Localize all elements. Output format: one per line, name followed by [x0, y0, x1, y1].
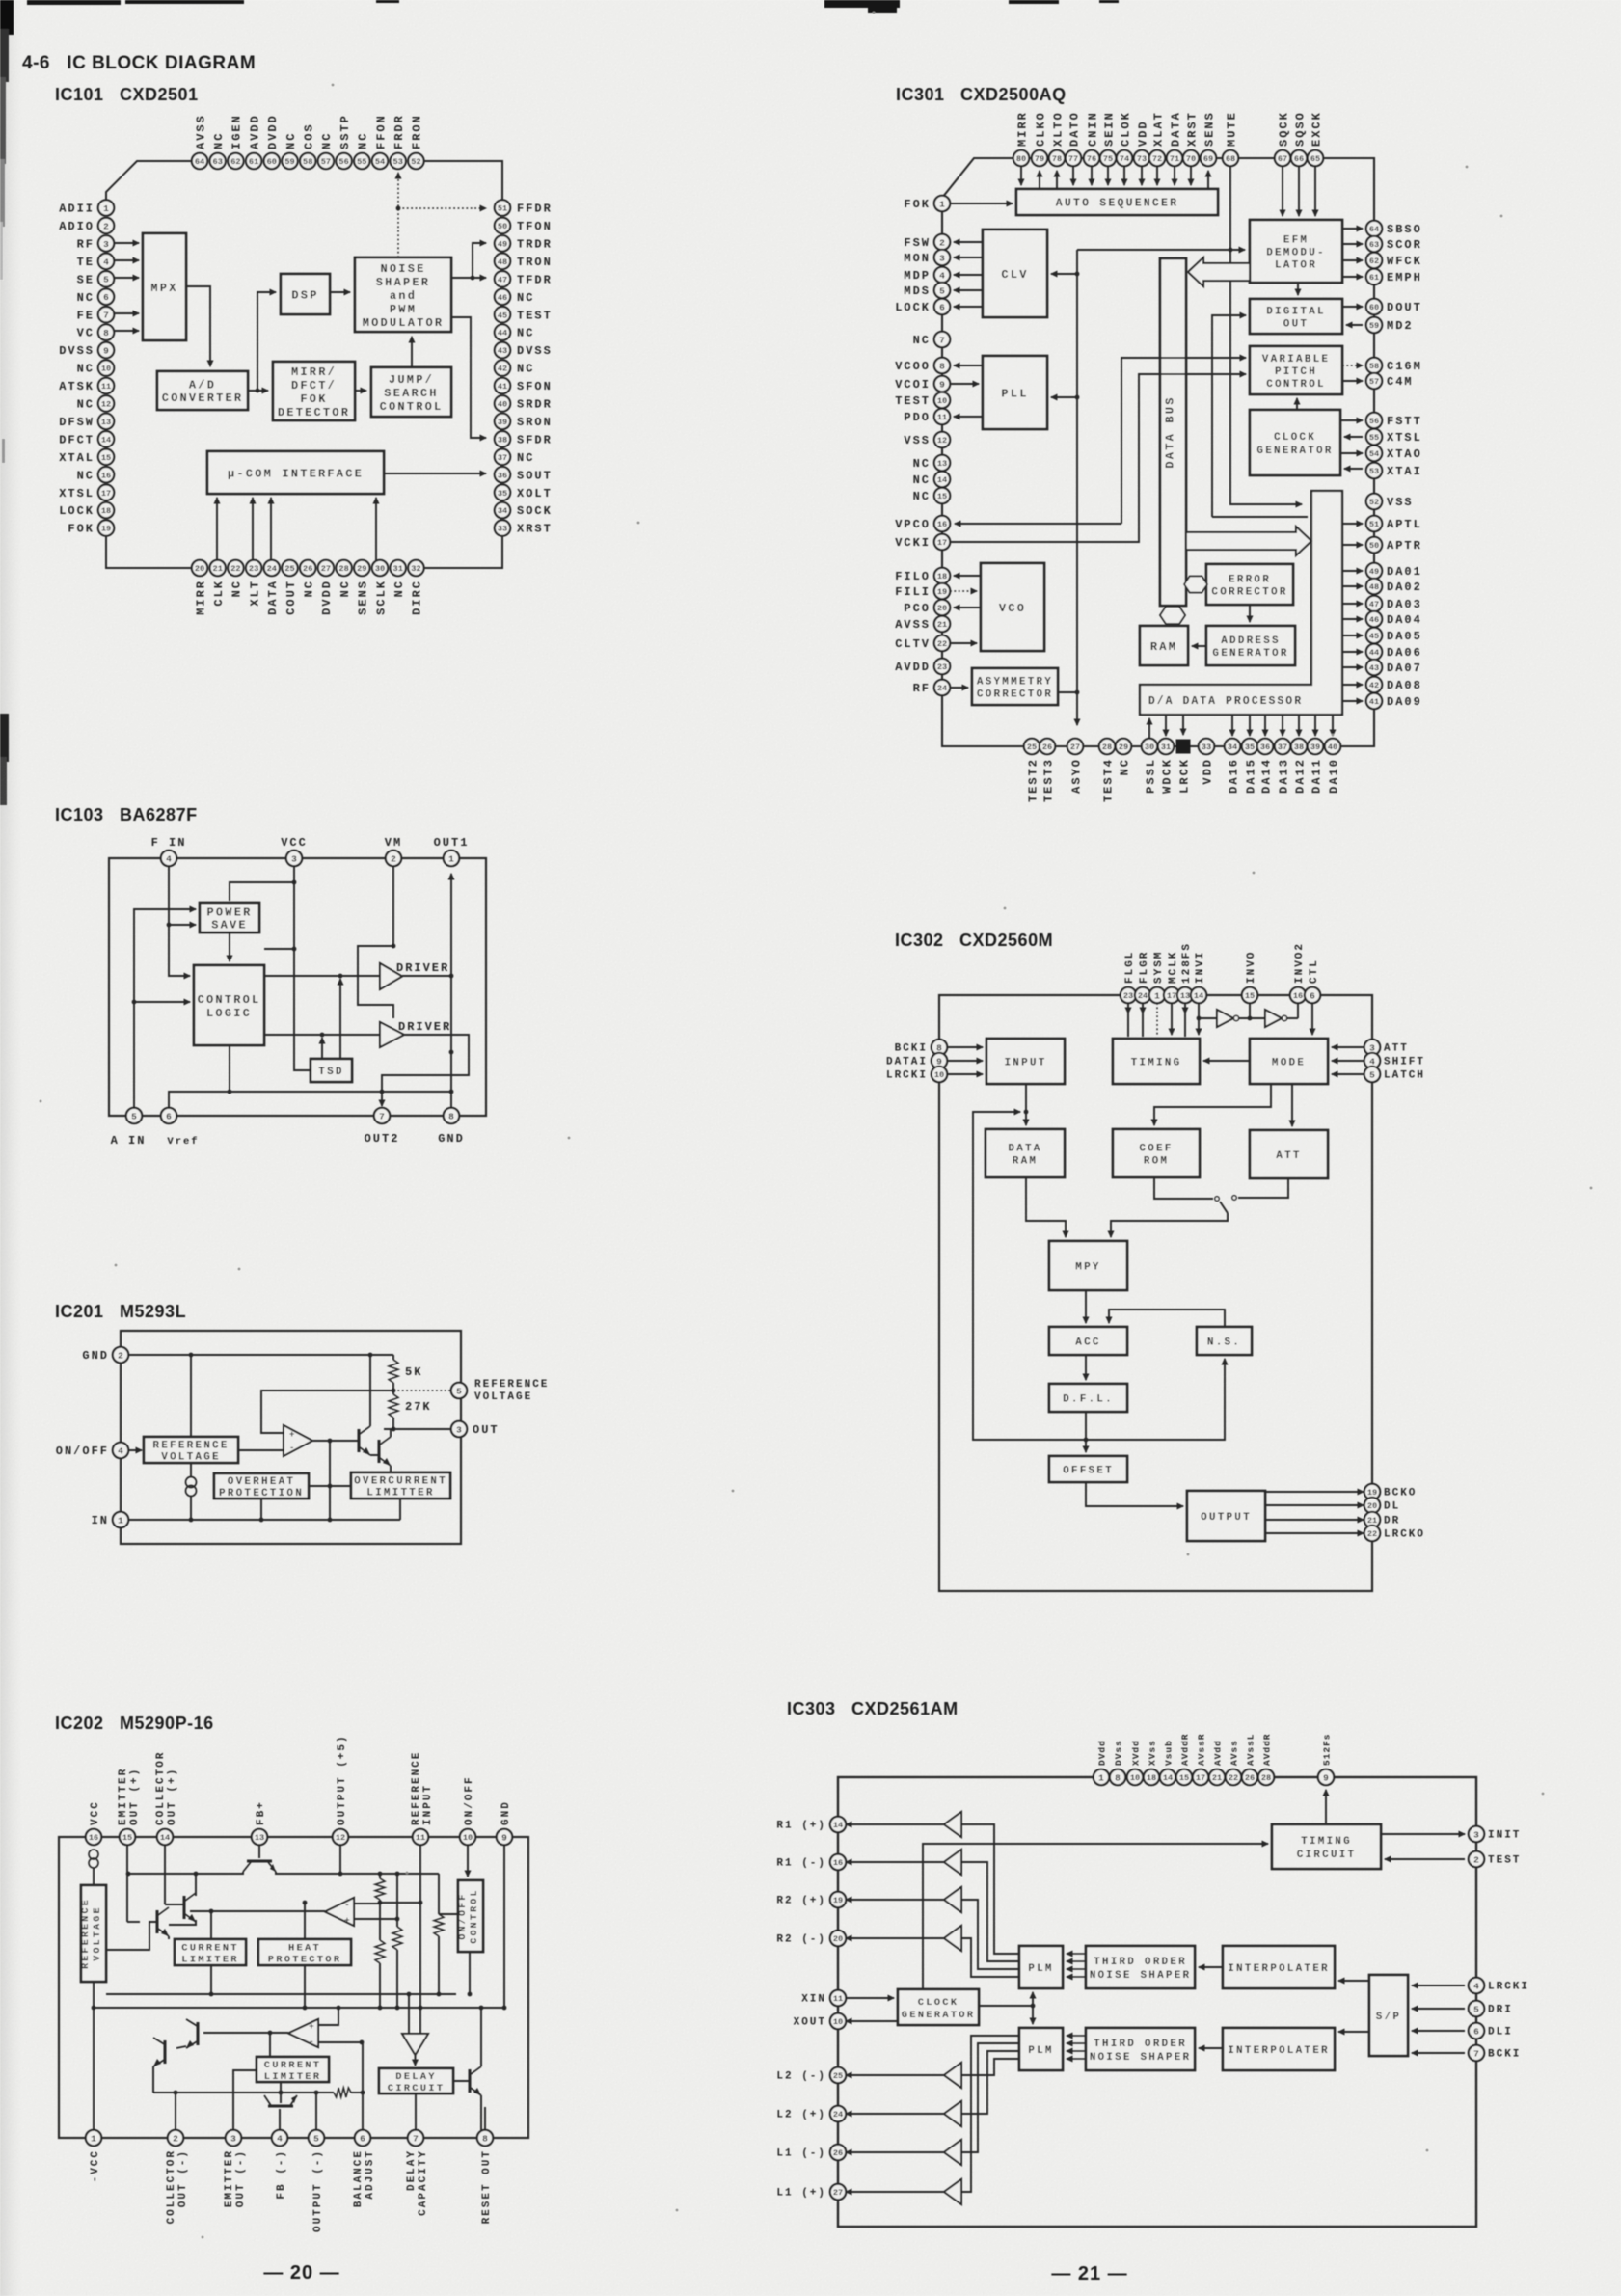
IC301 wire pin 9 VCOI to PLL	[950, 383, 979, 385]
IC301 wire pin 73 to AUTO SEQUENCER	[1141, 166, 1143, 185]
IC303 pin 22 AVss	[1226, 1740, 1241, 1785]
IC101 pin 28 NC	[336, 560, 352, 598]
IC101 wire noise shaper to pin 38 SFDR	[451, 317, 486, 438]
IC202 junction Q1/pin15	[126, 1872, 131, 1877]
IC301 pin 65 EXCK	[1308, 111, 1324, 166]
IC101 pin 63 NC	[210, 132, 227, 170]
IC301 wire D/A latch to pin 50	[1342, 544, 1363, 546]
IC101 pin 43 DVSS	[495, 342, 553, 358]
IC301 wire D/A to pin 39	[1314, 715, 1316, 736]
IC301 wire D/A latch to pin 43	[1342, 666, 1363, 668]
IC103 wire TSD up to driver1 line	[339, 979, 341, 1059]
IC302 block TIMING	[1113, 1039, 1200, 1084]
IC303 pin 14 R1 (+)	[776, 1817, 846, 1832]
IC101 pin 1 ADII	[59, 200, 114, 215]
IC101 pin 20 MIRR	[192, 560, 208, 615]
IC202 wire pin 5 up	[315, 2093, 317, 2130]
IC301 wire to PLL	[1051, 396, 1077, 398]
IC301 pin 40 DA10	[1325, 739, 1341, 794]
IC302 wire INVI to inverter 1	[1199, 1017, 1217, 1019]
IC202 wire pin 3 up	[232, 2080, 234, 2130]
IC202 junction amp1/cl1	[209, 1909, 214, 1914]
IC103 pin 7 OUT2	[374, 1108, 390, 1123]
IC202 junction rail/R2	[395, 1872, 400, 1877]
IC301 pin 12 VSS	[904, 432, 950, 447]
IC101 block MPX	[143, 233, 186, 340]
IC302 pin 19 BCKO	[1364, 1484, 1418, 1499]
IC101 pin 62 IGEN	[228, 114, 244, 169]
IC303 wire PLM upper out y2042	[961, 1900, 1019, 1969]
IC303 block CLOCK GENERATOR	[898, 1989, 979, 2025]
IC202 wire Q2 base feed	[165, 1904, 184, 1905]
IC303 wire PLM lower out y2119	[961, 2043, 1019, 2152]
IC101 pin 58 COS	[300, 122, 316, 169]
IC101 pin 13 DFSW	[59, 414, 114, 429]
IC201 outer boundary	[121, 1331, 461, 1544]
IC302 wire ATT to switch	[1238, 1178, 1288, 1198]
IC201 junction GND/refv	[189, 1353, 194, 1358]
IC202 wire pin15 to Q3	[127, 1921, 140, 1923]
IC202 wire cl2 bottom to line	[280, 2082, 282, 2103]
IC202 wire pin 6 balance up	[362, 2042, 364, 2130]
IC201 junction OUT	[392, 1427, 396, 1432]
IC202 pin 7 DELAY CAPACITY	[406, 2130, 429, 2216]
IC103 outer boundary	[109, 858, 486, 1116]
IC101 wire pin 21 to u-COM interface	[216, 498, 218, 560]
IC301 pin 8 VCOO	[895, 358, 950, 373]
IC202 wire Q7 emitter down	[481, 2095, 485, 2130]
IC103 junction TSD/driver1	[338, 974, 343, 979]
IC301 wire clock gen to pin 54 XTAO	[1340, 452, 1363, 454]
IC301 pin 2 FSW	[904, 234, 950, 250]
IC101 junction TFDR line	[471, 276, 475, 281]
IC303 junction clock/PLM	[1031, 2004, 1036, 2009]
IC103 pin 2 VM	[386, 851, 401, 866]
IC302 wire OUTPUT to pin 19	[1265, 1491, 1364, 1493]
IC103 junction driver2/pin7	[380, 1090, 385, 1094]
IC202 pin 2 COLLECTOR OUT (-)	[166, 2130, 189, 2225]
IC301 bus arrow DATA BUS to D/A latch	[1186, 527, 1311, 555]
IC202 wire pin 13 FB+ to Q1	[258, 1845, 260, 1858]
IC101 pin 61 AVDD	[246, 114, 261, 169]
IC301 wire AUTO SEQUENCER to pin 69	[1207, 171, 1209, 189]
IC301 wire PLL to pin 8 VCOO	[954, 365, 983, 366]
IC202 junction heat/railB	[303, 2006, 308, 2011]
IC301 pin 42 DA08	[1366, 677, 1422, 692]
IC201 pin 5 REFERENCE VOLTAGE	[451, 1383, 467, 1398]
IC202 transistor Q1 pass	[243, 1861, 276, 1872]
IC202 wire R4 top	[438, 1874, 440, 1914]
IC302 wire pin 15 INVO drop	[1249, 1003, 1251, 1018]
IC202 wire heat protector top	[304, 1903, 306, 1939]
IC302 wire pin 16 INVO2 drop	[1297, 1003, 1299, 1018]
IC101 pin 6 NC	[77, 289, 115, 305]
IC303 wire NS upper to PLM y2050	[1067, 1976, 1086, 1978]
IC302 pin 8 BCKI	[895, 1040, 948, 1055]
IC101 pin 22 NC	[228, 560, 244, 598]
IC301 pin 50 APTR	[1366, 537, 1422, 553]
IC202 wire Q4 to Q5	[176, 2046, 186, 2048]
IC201 resistor 27K	[389, 1394, 398, 1418]
IC303 wire pin 2 TEST to TIMING	[1385, 1858, 1465, 1860]
IC103 pin 5 A IN	[126, 1108, 142, 1123]
IC101 pin 57 NC	[318, 132, 335, 170]
IC101 wire pin 3 to MPX	[114, 242, 139, 244]
IC302 junction INPUT/DATA RAM feedback	[1024, 1110, 1029, 1115]
IC303 wire timing to pin 9	[1325, 1790, 1327, 1824]
IC103 wire CONTROL LOGIC bottom to pin7 line	[230, 1045, 451, 1092]
IC301 wire VCKI line	[950, 374, 1246, 542]
IC103 junction OUT1 lower	[449, 1050, 454, 1055]
IC201 junction IN/op-amp	[328, 1518, 333, 1523]
IC201 wire OVERCURRENT bottom to IN	[399, 1499, 401, 1520]
IC303 wire INTERPOLATER to NS lower	[1199, 2047, 1223, 2049]
IC301 pin 54 XTAO	[1366, 446, 1422, 461]
IC201 junction Q1 collector	[368, 1353, 373, 1358]
IC303 pin 21 AVdd	[1209, 1740, 1225, 1785]
IC101 pin 53 FRDR	[391, 114, 407, 169]
IC301 pin 15 NC	[913, 488, 951, 503]
IC101 pin 29 SENS	[354, 560, 370, 615]
IC302 pin 13 128FS	[1177, 942, 1193, 1003]
IC103 wire TSD up to driver2 line	[321, 1038, 323, 1059]
IC202 pin 11 REFERENCE INPUT	[411, 1751, 434, 1846]
IC101 pin 46 NC	[495, 289, 535, 305]
IC301 pin 39 DA11	[1308, 739, 1324, 794]
IC101 pin 30 SCLK	[372, 560, 389, 615]
IC202 wire cl1 bottom	[210, 1965, 212, 1994]
IC301 pin 36 DA14	[1257, 739, 1274, 794]
IC302 wire inverter 1 to pin 15 INVO	[1239, 1017, 1265, 1019]
IC301 wire D/A to pin 32 LRCK	[1182, 715, 1184, 735]
IC101 block JUMP/SEARCH CONTROL	[371, 367, 451, 417]
IC302 wire OUTPUT to pin 20	[1265, 1504, 1364, 1506]
IC302 wire pin 23 to TIMING lower	[1127, 1012, 1129, 1037]
IC301 pin 73 VDD	[1134, 120, 1150, 166]
IC303 pin 10 XOUT	[794, 2013, 847, 2029]
IC202 wire comparator to delay	[415, 2055, 417, 2066]
IC201 op-amp comparator	[284, 1425, 312, 1456]
IC101 block MIRR/DFCT/FOK DETECTOR	[273, 362, 355, 420]
IC302 wire MODE to TIMING	[1203, 1060, 1250, 1062]
IC301 pin 11 PDO	[904, 409, 950, 424]
IC303 pin 4 LRCKI	[1469, 1978, 1529, 1993]
IC302 wire inverter 2 to pin 16 INVO2	[1287, 1017, 1298, 1019]
IC301 pin 19 FILI	[895, 583, 950, 599]
IC303 wire NS lower to PLM y2135	[1067, 2058, 1086, 2060]
IC103 junction OUT1	[449, 974, 454, 979]
IC301 pin 56 FSTT	[1366, 413, 1422, 428]
IC301 pin 18 FILO	[895, 568, 950, 583]
IC302 wire COEF ROM to switch	[1154, 1177, 1213, 1199]
IC202 wire onoff left	[439, 1913, 458, 1915]
IC301 wire D/A to pin 40	[1332, 715, 1334, 736]
IC301 pin 13 NC	[913, 455, 951, 471]
IC302 pin 24 FLGR	[1135, 951, 1150, 1004]
IC103 wire POWER SAVE to CONTROL LOGIC	[229, 932, 230, 961]
IC301 wire to CLV	[1051, 273, 1077, 275]
IC201 wire pin4 to REFERENCE VOLTAGE	[128, 1449, 142, 1451]
IC201 wire Q2 collector to OUT	[390, 1429, 392, 1437]
IC301 pin 34 DA16	[1225, 739, 1241, 794]
IC303 wire NS upper to PLM y2034	[1067, 1960, 1086, 1962]
IC202 wire refv bottom	[93, 1982, 95, 2008]
IC202 wire R1 bottom	[379, 1900, 381, 1903]
IC303 amplifier for pin 27 L1 (+)	[944, 2179, 961, 2204]
IC301 wire pin 75 to AUTO SEQUENCER	[1107, 166, 1109, 185]
IC202 pin 16 VCC	[86, 1800, 101, 1845]
IC303 wire TIMING to pin 3 INIT	[1381, 1833, 1465, 1835]
IC303 wire S/P to INTERPOLATER lower	[1338, 2031, 1369, 2033]
IC301 block ASYMMETRY CORRECTOR	[972, 668, 1058, 705]
IC301 pin 51 APTL	[1366, 516, 1422, 531]
IC303 pin 25 L2 (-)	[776, 2067, 846, 2083]
IC301 wire D/A latch to pin 48	[1342, 585, 1363, 587]
IC301 pin 80 MIRR	[1013, 111, 1030, 166]
IC303 pin 5 DRI	[1469, 2001, 1513, 2016]
IC301 pin 62 WFCK	[1366, 253, 1422, 268]
IC202 pin 14 COLLECTOR OUT (+)	[155, 1751, 178, 1846]
IC202 junction pin11/amp line	[419, 1901, 423, 1905]
IC202 wire amp2 output	[203, 2032, 288, 2034]
IC303 pin 27 L1 (+)	[776, 2184, 846, 2200]
IC301 block VCO	[981, 563, 1044, 651]
IC302 block ACC	[1049, 1327, 1127, 1355]
IC301 wire pin 74 to AUTO SEQUENCER	[1123, 166, 1125, 185]
IC301 frame	[942, 158, 1374, 746]
IC202 wire Q7 collector up	[480, 2008, 482, 2066]
IC101 pin 2 ADIO	[59, 218, 114, 233]
IC301 wire branch to D/A latch	[1212, 516, 1308, 518]
IC303 amplifier for pin 19 R2 (+)	[944, 1887, 961, 1912]
IC202 wire R3 bottom	[379, 1963, 381, 2008]
IC303 pin 24 L2 (+)	[776, 2106, 846, 2121]
IC202 wire refv to Q3 base	[106, 1922, 157, 1950]
IC202 junction heat tap	[303, 1901, 308, 1905]
IC302 pin 20 DL	[1364, 1498, 1400, 1513]
IC302 block MPY	[1049, 1241, 1127, 1290]
IC301 pin 44 DA06	[1366, 644, 1422, 660]
IC202 junction R2/rail	[395, 2006, 400, 2011]
IC202 pin 6 BALANCE ADJUST	[353, 2130, 376, 2207]
IC202 junction comp1/railA	[407, 1992, 412, 1997]
IC303 wire PLM upper out y2050	[961, 1938, 1019, 1977]
IC302 wire pin 23 to TIMING	[1127, 1003, 1129, 1013]
IC303 wire clock to PLM lower	[1032, 2006, 1034, 2024]
IC302 wire OUTPUT to pin 22	[1265, 1532, 1364, 1534]
IC302 block OFFSET	[1049, 1456, 1127, 1482]
IC101 pin 33 XRST	[495, 520, 553, 535]
IC303 wire NS lower to PLM y2127	[1067, 2050, 1086, 2052]
IC303 wire pin 5 to S/P	[1412, 2008, 1465, 2010]
IC202 resistor R1	[375, 1878, 385, 1900]
IC303 pin 3 INIT	[1469, 1826, 1522, 1842]
IC201 block OVERHEAT PROTECTION	[214, 1473, 309, 1499]
IC202 block DELAY CIRCUIT	[379, 2068, 453, 2094]
IC101 pin 15 XTAL	[59, 449, 114, 465]
IC302 wire pin 14 INVI to TIMING	[1198, 1003, 1200, 1035]
IC301 pin 66 SQSO	[1291, 111, 1308, 166]
IC301 wire digital out feed	[1212, 315, 1246, 517]
IC303 pin 15 AVddR	[1176, 1733, 1192, 1785]
IC202 junction amp2/balance	[360, 2040, 365, 2045]
IC202 wire Q1 collector line	[128, 1872, 243, 1874]
IC202 resistor R6	[334, 2088, 351, 2097]
IC201 pin 2 GND	[82, 1347, 128, 1363]
IC202 pin 4 FB (-)	[272, 2130, 287, 2200]
IC202 wire pin 2 up	[175, 2093, 176, 2130]
IC202 transistor Q3	[157, 1907, 169, 1936]
IC303 amplifier for pin 24 L2 (+)	[944, 2101, 961, 2126]
IC101 pin 17 XTSL	[59, 485, 114, 500]
IC202 transistor Q4	[186, 2019, 199, 2048]
IC302 wire ACC to D.F.L.	[1085, 1355, 1087, 1380]
IC303 wire amplifier to pin 20	[846, 1937, 944, 1939]
IC202 wire pin 11 down	[419, 1845, 421, 2008]
IC303 amplifier for pin 26 L1 (-)	[944, 2140, 961, 2165]
IC303 pin 26 L1 (-)	[776, 2145, 846, 2160]
IC303 block PLM lower	[1019, 2028, 1063, 2070]
IC301 block DATA BUS	[1160, 258, 1186, 606]
IC301 block D/A DATA PROCESSOR with latch column	[1140, 491, 1342, 715]
IC201 wire OVERHEAT to OVERCURRENT	[309, 1485, 351, 1487]
IC303 wire pin 11 XIN to clock generator	[846, 1997, 894, 1999]
IC302 junction INVO	[1248, 1016, 1253, 1021]
IC302 block ATT	[1250, 1130, 1328, 1178]
IC101 pin 50 TFON	[495, 218, 553, 233]
IC201 transistor Q2	[379, 1437, 391, 1466]
IC101 pin 37 NC	[495, 449, 535, 465]
IC202 wire lower line	[153, 2092, 334, 2093]
IC301 wire EFM to pin 63	[1342, 243, 1363, 245]
IC303 pin 28 AVddR	[1258, 1733, 1274, 1785]
IC301 pin 49 DA01	[1366, 563, 1422, 579]
IC301 wire D/A to pin 31 WDCK	[1165, 715, 1167, 736]
IC101 wire pin 30 to u-COM interface	[375, 498, 377, 560]
IC202 wire heat protector bottom	[304, 1965, 306, 2008]
IC101 pin 24 DATA	[264, 560, 281, 615]
IC301 pin 17 VCKI	[895, 534, 950, 550]
IC302 pin 14 INVI	[1191, 951, 1206, 1004]
IC301 pin 41 DA09	[1366, 693, 1422, 709]
IC301 wire pin 71 to AUTO SEQUENCER	[1174, 166, 1175, 185]
IC101 wire pin 5 to MPX	[114, 277, 139, 279]
IC202 junction R3/rail	[378, 2006, 383, 2011]
IC202 wire R6 to balance	[351, 2092, 363, 2093]
IC301 wire VPCO line	[955, 523, 1121, 525]
IC302 inverter 2 bubble	[1282, 1015, 1286, 1020]
IC303 pin 18 XVss	[1144, 1740, 1159, 1785]
IC201 pin 3 OUT	[451, 1421, 500, 1437]
IC303 amplifier for pin 14 R1 (+)	[944, 1812, 961, 1837]
IC302 wire MODE to ATT	[1291, 1084, 1293, 1126]
IC101 pin 38 SFDR	[495, 431, 553, 446]
IC301 wire RF vertical	[1076, 250, 1078, 725]
IC302 wire pin 5 to MODE	[1332, 1073, 1364, 1075]
IC202 wire onoff bottom	[469, 1952, 471, 1994]
IC301 wire pin 76 to AUTO SEQUENCER	[1091, 166, 1093, 185]
IC303 pin 8 DVss	[1110, 1740, 1125, 1785]
IC202 wire amp1 input ext	[380, 1902, 420, 1904]
IC301 hexagon data bus to error corrector	[1184, 577, 1207, 593]
IC101 wire MPX to A/D converter	[186, 286, 210, 366]
IC301 pin 21 AVSS	[895, 616, 950, 632]
IC302 block INPUT	[986, 1039, 1065, 1084]
IC303 amplifier for pin 16 R1 (-)	[944, 1850, 961, 1875]
IC301 junction RF/asymmetry	[1075, 690, 1080, 695]
IC302 wire OUTPUT to pin 21	[1265, 1519, 1364, 1521]
IC101 pin 45 TEST	[495, 307, 553, 322]
IC101 wire to pin 49 TRDR	[473, 243, 486, 278]
IC103 pin 6 Vref	[161, 1108, 176, 1123]
IC301 block ADDRESS GENERATOR	[1206, 626, 1295, 665]
IC302 switch blade	[1220, 1202, 1228, 1213]
IC303 amplifier for pin 20 R2 (-)	[944, 1926, 961, 1951]
IC301 wire pin to EFM top x1330	[1282, 166, 1283, 216]
IC303 wire PLM upper out y2034	[961, 1862, 1019, 1961]
IC301 pin 6 LOCK	[895, 299, 950, 314]
IC202 wire comparator feed 1	[408, 1994, 410, 2034]
IC103 wire pin5 A IN up	[134, 909, 196, 1108]
IC202 pin 12 OUTPUT (+5)	[333, 1734, 348, 1845]
IC302 wire pin 24 to TIMING lower	[1142, 1012, 1144, 1037]
IC301 junction RF/CLV	[1075, 272, 1080, 277]
IC301 pin 10 TEST	[895, 392, 950, 408]
IC302 wire pin 6 CTL to MODE	[1311, 1003, 1313, 1035]
IC303 pin 26 AVssL	[1242, 1733, 1257, 1785]
IC301 wire pin 70 to AUTO SEQUENCER	[1190, 166, 1192, 185]
IC202 transistor Q5	[153, 2038, 166, 2066]
IC101 wire A/D to MIRR detector	[248, 390, 268, 392]
IC201 current source symbol	[186, 1477, 197, 1497]
IC302 wire MPY to ACC	[1085, 1290, 1087, 1323]
IC301 wire D/A latch to pin 44	[1342, 651, 1363, 653]
IC201 wire GND rail	[128, 1354, 393, 1356]
IC302 wire pin 13 to TIMING	[1184, 1003, 1186, 1013]
IC301 wire CLV to pin 4	[954, 274, 983, 276]
IC101 block DSP	[281, 274, 330, 314]
IC302 pin 23 FLGL	[1121, 951, 1136, 1004]
IC202 wire amp1 output	[190, 1910, 325, 1912]
IC201 wire feedback to op-amp plus	[261, 1391, 393, 1433]
IC101 pin 23 XLT	[246, 560, 261, 607]
IC301 block CLV	[983, 230, 1047, 317]
IC101 pin 9 DVSS	[59, 342, 114, 358]
IC202 junction amp2out/cl2	[268, 2031, 273, 2036]
IC301 wire pin 80 to AUTO SEQUENCER	[1020, 166, 1022, 185]
IC301 block PLL	[983, 356, 1047, 429]
scan artifact left edge streak	[0, 0, 14, 805]
IC202 junction refv/railB	[92, 2006, 96, 2011]
IC303 pin 14 Vsub	[1160, 1740, 1175, 1785]
IC201 wire refv to current source	[190, 1463, 192, 1477]
IC303 wire amplifier to pin 19	[846, 1899, 944, 1901]
IC101 pin 51 FFDR	[495, 200, 553, 215]
IC302 block OUTPUT	[1187, 1491, 1265, 1541]
IC303 pin 20 R2 (-)	[776, 1931, 846, 1946]
IC202 wire rail A	[106, 1993, 456, 1995]
IC202 wire Q3 emitter down	[168, 1936, 170, 1939]
IC301 pin 5 MDS	[904, 283, 950, 298]
IC201 junction divider	[392, 1389, 396, 1393]
IC301 pin 46 DA04	[1366, 611, 1422, 627]
IC101 pin 59 NC	[282, 132, 298, 170]
IC301 wire clock gen to VPC	[1296, 398, 1298, 410]
IC303 pin 17 AVssR	[1193, 1733, 1208, 1785]
IC101 junction A/D output	[256, 389, 260, 393]
IC202 pin 8 RESET OUT	[477, 2130, 493, 2225]
IC301 wire pin 19 FILI to VCO	[950, 590, 977, 592]
